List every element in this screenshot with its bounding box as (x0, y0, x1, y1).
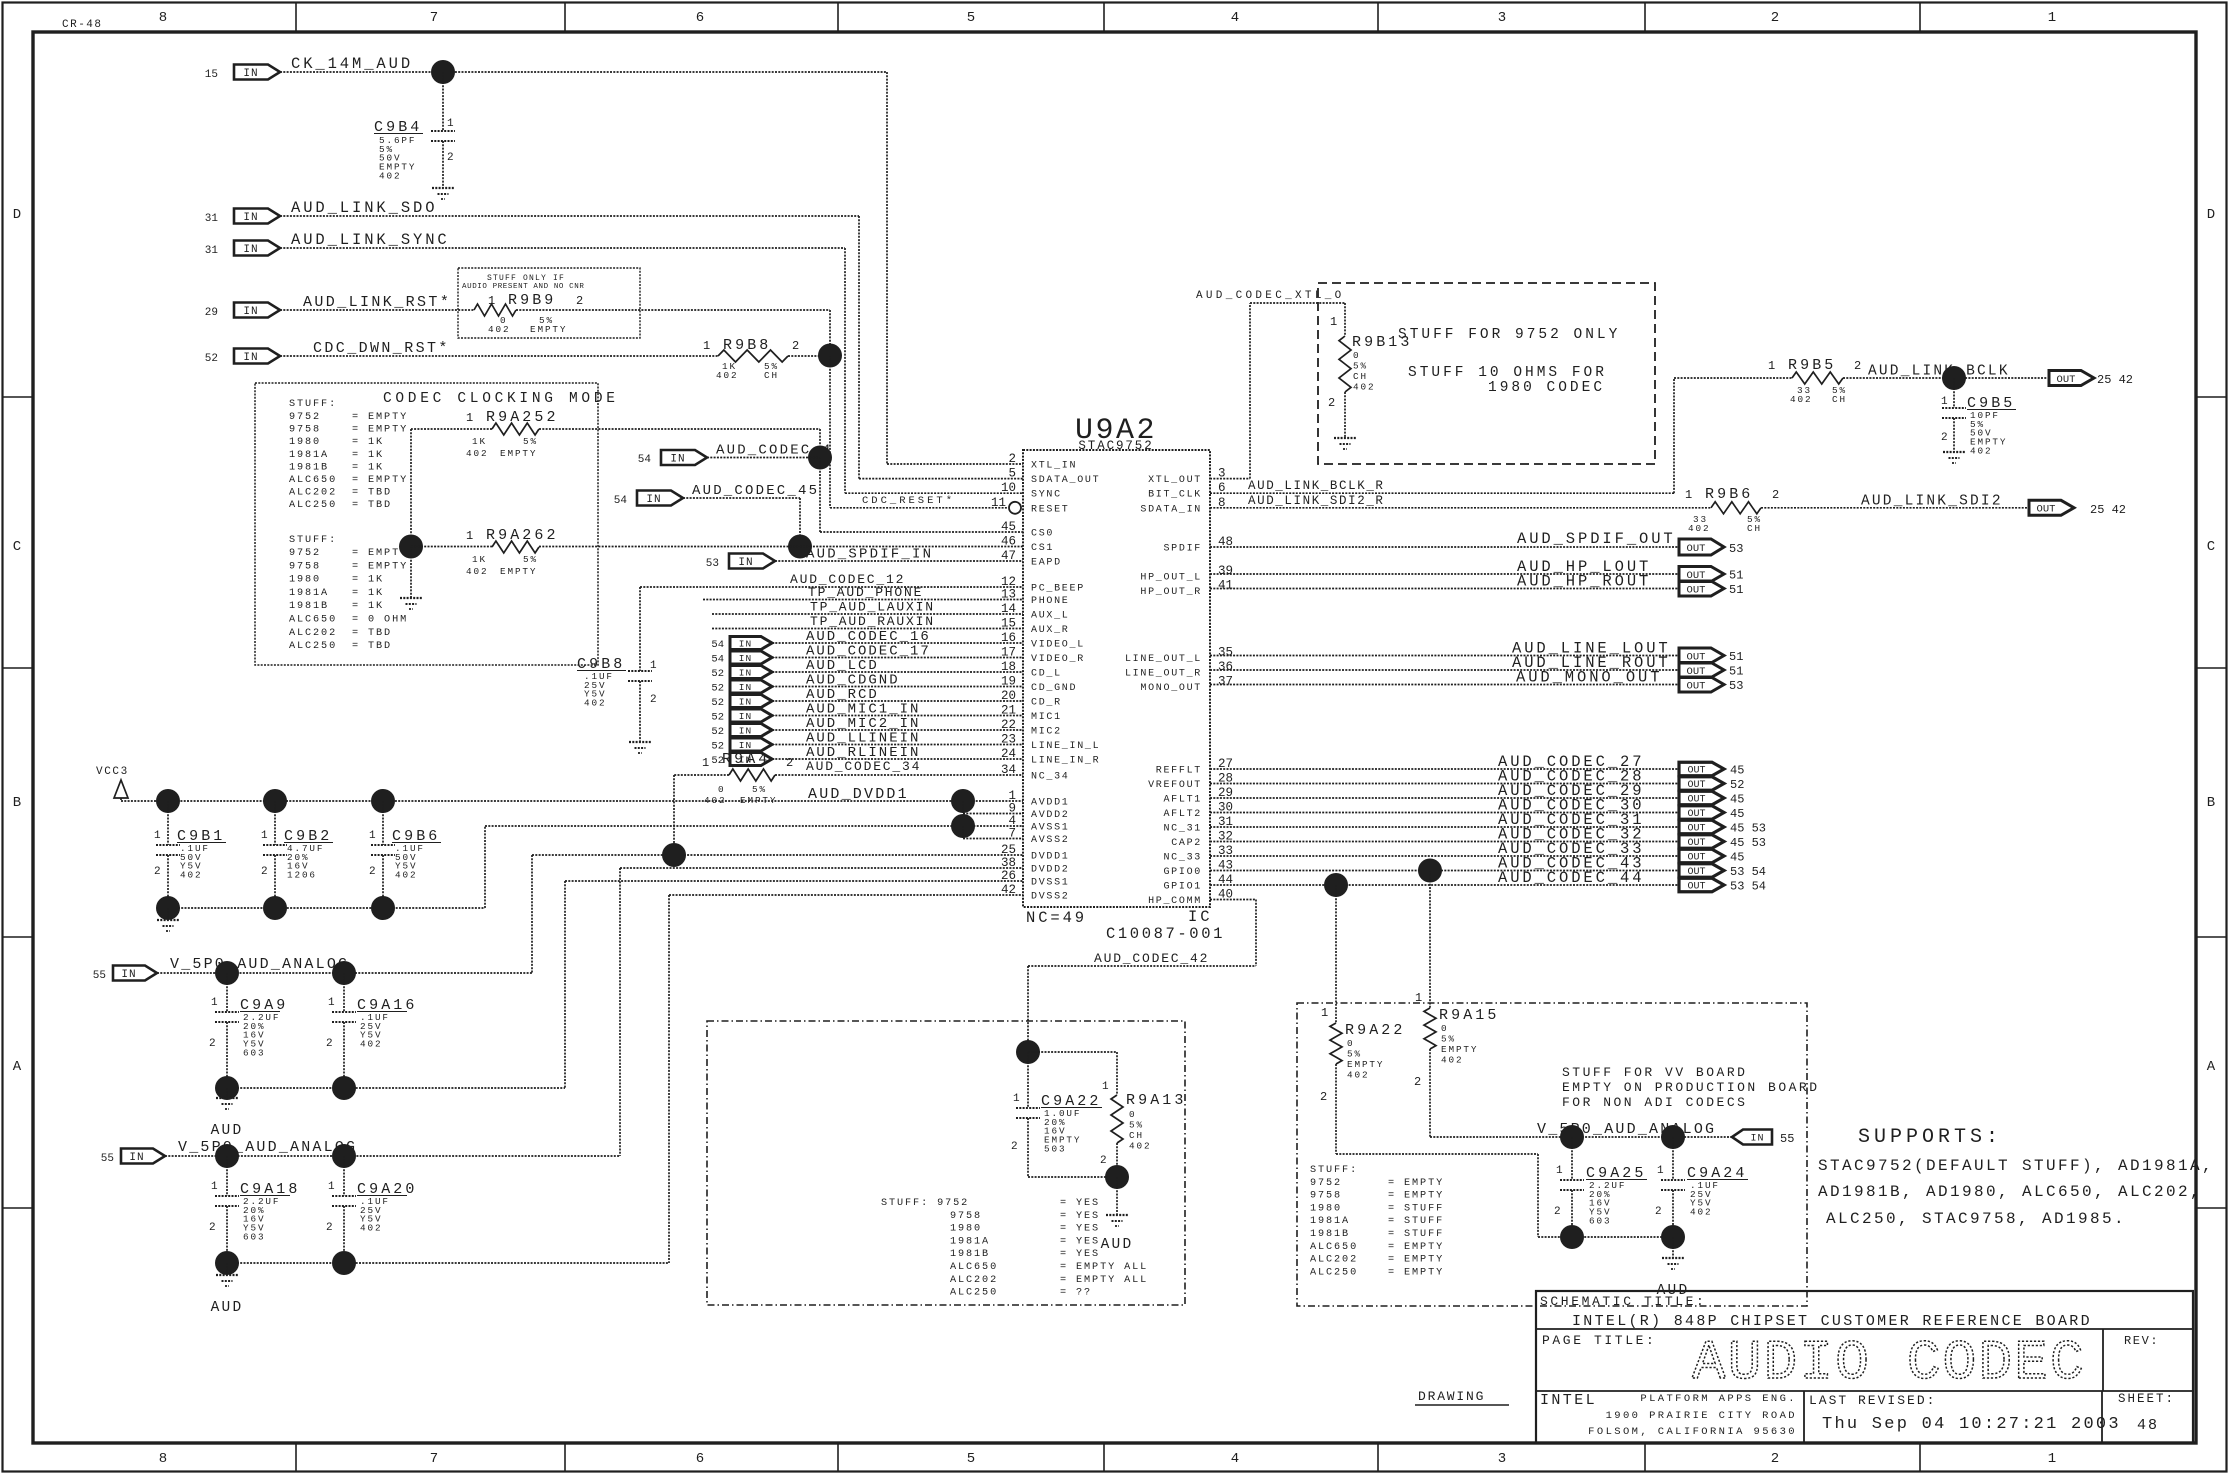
wire AUD_MIC1_IN (772, 715, 1023, 717)
svg-text:IN: IN (739, 725, 752, 736)
svg-text:= 1K: = 1K (352, 462, 384, 473)
svg-text:1981A: 1981A (1310, 1216, 1350, 1227)
svg-text:CR-48: CR-48 (62, 19, 103, 31)
svg-text:603: 603 (243, 1231, 265, 1242)
wire AUD_CODEC_33 (1210, 855, 1679, 857)
IC U9A2 RESET pin bubble (1009, 502, 1021, 514)
svg-text:45: 45 (1730, 851, 1744, 865)
svg-text:52: 52 (1730, 778, 1744, 792)
svg-text:1981B: 1981B (1310, 1229, 1350, 1240)
svg-text:402: 402 (360, 1039, 382, 1050)
svg-text:AUD_LINK_SDI2_R: AUD_LINK_SDI2_R (1248, 494, 1385, 508)
svg-text:R9B8: R9B8 (723, 337, 771, 354)
svg-text:HP_COMM: HP_COMM (1148, 896, 1202, 907)
svg-text:29: 29 (205, 307, 218, 319)
svg-text:TP_AUD_LAUXIN: TP_AUD_LAUXIN (810, 600, 935, 615)
svg-text:AUD_LINK_SDI2: AUD_LINK_SDI2 (1861, 494, 2003, 510)
wire AUD_LLINEIN (772, 744, 1023, 746)
svg-text:1K: 1K (472, 554, 487, 565)
note box STUFF ONLY IF AUDIO PRESENT AND NO CNR (458, 268, 640, 338)
capacitor C9B2 (274, 801, 276, 845)
wire junction to R9A13 (1028, 1051, 1117, 1053)
svg-text:19: 19 (1001, 675, 1016, 689)
svg-text:OUT: OUT (2057, 374, 2076, 386)
svg-text:A: A (13, 1059, 22, 1075)
svg-text:OUT: OUT (1687, 824, 1705, 835)
svg-text:GPIO1: GPIO1 (1163, 882, 1202, 893)
svg-text:LINE_OUT_L: LINE_OUT_L (1125, 654, 1202, 665)
svg-text:AUX_R: AUX_R (1031, 625, 1070, 636)
svg-text:IN: IN (739, 638, 752, 649)
svg-text:EMPTY: EMPTY (1347, 1059, 1384, 1070)
svg-text:1981B: 1981B (289, 601, 329, 612)
wire DVDD1 rail down to V_5P0_AUD_ANALOG (531, 855, 533, 973)
svg-text:2: 2 (1554, 1206, 1563, 1218)
svg-text:= 1K: = 1K (352, 588, 384, 599)
svg-text:V_5P0_AUD_ANALOG: V_5P0_AUD_ANALOG (170, 956, 349, 973)
wire CK_14M_AUD (280, 71, 887, 73)
wire R9B9 to reset node (516, 309, 830, 311)
ground AUD below C9A18 (216, 1274, 238, 1276)
svg-text:11: 11 (991, 496, 1006, 510)
port IN V_5P0_AUD_ANALOG sheet 55 (left pointing) (1732, 1130, 1772, 1145)
svg-text:2: 2 (369, 866, 378, 878)
wire AUD_SPDIF_IN to EAPD pin 47 (775, 560, 1023, 562)
svg-text:MONO_OUT: MONO_OUT (1140, 683, 1202, 694)
svg-text:2: 2 (1414, 1075, 1421, 1089)
svg-text:2: 2 (447, 152, 456, 164)
resistor R9A15 0 ohm EMPTY (1429, 871, 1431, 1009)
svg-text:5%: 5% (1353, 361, 1368, 372)
svg-text:2: 2 (209, 1038, 218, 1050)
svg-text:55: 55 (101, 1153, 114, 1165)
svg-text:15: 15 (205, 69, 218, 81)
svg-text:= YES: = YES (1060, 1224, 1100, 1235)
svg-text:AUD_CODEC_XTL_O: AUD_CODEC_XTL_O (1196, 290, 1345, 302)
node AVDD jumper (951, 789, 975, 813)
ground AUD in VV box (1662, 1257, 1684, 1259)
wire AUD_LINK_SYNC (280, 247, 845, 249)
svg-text:402: 402 (466, 448, 488, 459)
svg-text:6: 6 (696, 1451, 704, 1467)
wire R9A13 to ground rail (1116, 1143, 1118, 1177)
svg-text:ALC202: ALC202 (289, 488, 337, 499)
svg-text:R9A13: R9A13 (1126, 1092, 1187, 1109)
svg-text:55: 55 (1780, 1132, 1794, 1146)
svg-text:402: 402 (1970, 445, 1992, 456)
wire R9A252 left to ground rail (411, 428, 492, 430)
wire R9B6 to AUD_LINK_SDI2 out (1761, 507, 2029, 509)
svg-text:38: 38 (1001, 856, 1016, 870)
svg-text:2: 2 (1854, 359, 1861, 373)
svg-text:2: 2 (786, 756, 793, 770)
capacitor C9A18 2.2UF (226, 1156, 228, 1196)
svg-text:AUD_CODEC_42: AUD_CODEC_42 (1094, 951, 1209, 966)
svg-text:CD_R: CD_R (1031, 698, 1062, 709)
svg-text:LINE_IN_R: LINE_IN_R (1031, 756, 1100, 767)
svg-text:51: 51 (1729, 665, 1743, 679)
svg-text:= TBD: = TBD (352, 628, 392, 639)
svg-text:OUT: OUT (1687, 680, 1706, 692)
svg-text:402: 402 (379, 170, 401, 181)
svg-text:1980: 1980 (1310, 1203, 1342, 1214)
svg-text:OUT: OUT (2037, 504, 2056, 516)
svg-text:NC_34: NC_34 (1031, 772, 1070, 783)
note box stuff table C9A22 (707, 1021, 1185, 1305)
ground below C9B5 (1943, 451, 1965, 453)
wire AUD_CODEC_32 (1210, 841, 1679, 843)
svg-text:IN: IN (670, 453, 685, 465)
svg-text:1: 1 (466, 411, 473, 425)
svg-text:1981A: 1981A (289, 588, 329, 599)
svg-text:1: 1 (1321, 1006, 1328, 1020)
svg-text:53: 53 (1729, 542, 1743, 556)
svg-text:1981A: 1981A (950, 1236, 990, 1247)
node gnd-C9B1 (156, 896, 180, 920)
wire R9A4 right to NC_34 pin 34 (775, 774, 1023, 776)
svg-text:OUT: OUT (1687, 766, 1705, 777)
svg-text:2: 2 (1008, 452, 1016, 466)
wire R9B8 to reset node (788, 355, 830, 357)
capacitor C9B6 (382, 801, 384, 845)
svg-text:1900 PRAIRIE CITY ROAD: 1900 PRAIRIE CITY ROAD (1606, 1410, 1797, 1422)
wire AUD_CODEC_45 (683, 497, 800, 499)
svg-text:C: C (13, 539, 21, 555)
svg-text:51: 51 (1729, 583, 1743, 597)
svg-text:23: 23 (1001, 733, 1016, 747)
svg-text:= STUFF: = STUFF (1388, 1216, 1444, 1227)
svg-text:= STUFF: = STUFF (1388, 1203, 1444, 1214)
svg-text:402: 402 (1441, 1055, 1463, 1066)
wire R9B13 to ground (1344, 392, 1346, 438)
wire AUD_CDGND (772, 686, 1023, 688)
wire AUD_CODEC_27 (1210, 768, 1679, 770)
svg-text:R9A15: R9A15 (1439, 1007, 1500, 1024)
svg-text:PLATFORM APPS ENG.: PLATFORM APPS ENG. (1640, 1393, 1797, 1405)
node CDC_RESET* junction (818, 344, 842, 368)
svg-text:AVSS2: AVSS2 (1031, 835, 1070, 846)
svg-text:AVDD2: AVDD2 (1031, 810, 1070, 821)
svg-text:= YES: = YES (1060, 1249, 1100, 1260)
note box STUFF FOR VV BOARD (1297, 1003, 1807, 1306)
wire AVSS2 pin 7 jumper (962, 826, 964, 839)
wire AUD_CODEC_31 (1210, 826, 1679, 828)
svg-text:OUT: OUT (1687, 853, 1705, 864)
ground AUD below C9A9 (216, 1097, 238, 1099)
wire AUD_CODEC_12 to PC_BEEP pin 12 (640, 586, 1023, 588)
svg-text:EMPTY: EMPTY (530, 324, 567, 335)
node gnd-C9B6 (371, 896, 395, 920)
port OUT AUD_CODEC_43 sheets 53 54 (1679, 864, 1724, 878)
wire junction down to CS0 pin 45 (819, 458, 821, 533)
svg-text:TP_AUD_RAUXIN: TP_AUD_RAUXIN (810, 614, 935, 629)
svg-text:REFFLT: REFFLT (1156, 766, 1202, 777)
svg-text:45: 45 (1730, 807, 1744, 821)
wire AUD_LINK_RST* to R9B9 (280, 309, 474, 311)
svg-text:LINE_IN_L: LINE_IN_L (1031, 741, 1100, 752)
svg-text:= ??: = ?? (1060, 1288, 1092, 1299)
svg-text:= 1K: = 1K (352, 601, 384, 612)
svg-text:AUD_LINK_BCLK_R: AUD_LINK_BCLK_R (1248, 479, 1385, 493)
wire R9A252 right to CS0 node (539, 428, 820, 430)
svg-text:1: 1 (211, 997, 220, 1009)
svg-text:1: 1 (703, 339, 710, 353)
svg-text:1: 1 (261, 830, 270, 842)
svg-text:1981A: 1981A (289, 450, 329, 461)
svg-text:GPIO0: GPIO0 (1163, 867, 1202, 878)
svg-text:CK_14M_AUD: CK_14M_AUD (291, 55, 413, 73)
svg-text:402: 402 (466, 566, 488, 577)
svg-text:51: 51 (1729, 569, 1743, 583)
node gnd C9A20 (332, 1251, 356, 1275)
svg-text:REV:: REV: (2124, 1334, 2159, 1348)
svg-text:2: 2 (209, 1222, 218, 1234)
svg-text:1: 1 (1330, 315, 1337, 329)
svg-text:31: 31 (205, 213, 219, 225)
svg-text:FOR NON ADI CODECS: FOR NON ADI CODECS (1562, 1095, 1747, 1110)
wire DVDD2 pin 38 (620, 867, 1023, 869)
svg-text:= EMPTY: = EMPTY (1388, 1178, 1444, 1189)
node CS0 junction (808, 446, 832, 470)
svg-text:OUT: OUT (1687, 838, 1705, 849)
svg-text:= EMPTY: = EMPTY (352, 475, 408, 486)
wire AUD_CODEC_29 (1210, 797, 1679, 799)
node VCC3-C9B2 (263, 789, 287, 813)
port OUT AUD_LINE_LOUT sheet 51 (1679, 648, 1724, 663)
svg-text:EMPTY: EMPTY (1441, 1044, 1478, 1055)
port OUT AUD_CODEC_29 sheets 45 (1679, 791, 1724, 805)
svg-text:SUPPORTS:: SUPPORTS: (1858, 1126, 2002, 1149)
svg-text:5%: 5% (1441, 1034, 1456, 1045)
svg-text:MIC1: MIC1 (1031, 712, 1062, 723)
svg-text:R9B6: R9B6 (1705, 486, 1753, 503)
svg-text:54: 54 (614, 495, 628, 507)
svg-text:1: 1 (2048, 1451, 2056, 1467)
svg-text:2: 2 (1328, 396, 1335, 410)
svg-text:402: 402 (180, 870, 202, 881)
svg-text:402: 402 (1353, 382, 1375, 393)
svg-text:603: 603 (243, 1047, 265, 1058)
svg-text:4: 4 (1231, 10, 1239, 26)
wire AUD_CODEC_16 (772, 642, 1023, 644)
ground below R9B13 (1334, 437, 1356, 439)
svg-text:5%: 5% (1129, 1120, 1144, 1131)
svg-text:AFLT2: AFLT2 (1163, 809, 1202, 820)
svg-text:= TBD: = TBD (352, 488, 392, 499)
svg-text:SPDIF: SPDIF (1163, 544, 1202, 555)
svg-text:16: 16 (1001, 631, 1016, 645)
svg-text:2: 2 (1772, 488, 1779, 502)
wire VCC3 rail to AVDD1 pin 1 (121, 800, 1023, 802)
port OUT AUD_CODEC_33 sheets 45 (1679, 849, 1724, 863)
node gnd C9A16 (332, 1076, 356, 1100)
svg-text:1: 1 (328, 1181, 337, 1193)
wire DVSS1 pin 26 (565, 880, 1023, 882)
svg-text:HP_OUT_L: HP_OUT_L (1140, 573, 1202, 584)
svg-text:IC: IC (1188, 908, 1212, 926)
svg-text:= EMPTY ALL: = EMPTY ALL (1060, 1275, 1148, 1286)
svg-text:9758: 9758 (289, 425, 321, 436)
svg-text:= 1K: = 1K (352, 437, 384, 448)
node V1-C9A9 (215, 961, 239, 985)
svg-text:31: 31 (205, 245, 219, 257)
svg-text:8: 8 (159, 10, 167, 26)
svg-text:HP_OUT_R: HP_OUT_R (1140, 587, 1202, 598)
svg-text:25 42: 25 42 (2090, 503, 2126, 517)
svg-text:CH: CH (1129, 1130, 1144, 1141)
wire C9B8 to ground (639, 681, 641, 742)
svg-text:AUD_HP_ROUT: AUD_HP_ROUT (1517, 573, 1651, 591)
svg-text:D: D (2207, 207, 2215, 223)
svg-text:2: 2 (1100, 1155, 1109, 1167)
svg-text:41: 41 (1218, 579, 1233, 593)
svg-text:Thu Sep 04 10:27:21 2003: Thu Sep 04 10:27:21 2003 (1822, 1415, 2121, 1434)
svg-text:C10087-001: C10087-001 (1106, 925, 1225, 943)
svg-text:1: 1 (211, 1181, 220, 1193)
IC U9A2 STAC9752 (1023, 450, 1210, 907)
port OUT AUD_CODEC_28 sheets 52 (1679, 777, 1724, 791)
svg-text:= EMPTY: = EMPTY (1388, 1191, 1444, 1202)
svg-text:10: 10 (1001, 481, 1016, 495)
capacitor C9A9 2.2UF (226, 973, 228, 1012)
svg-text:ALC250: ALC250 (950, 1288, 998, 1299)
capacitor C9A24 .1UF (1672, 1137, 1674, 1180)
svg-text:IN: IN (739, 667, 752, 678)
svg-text:IN: IN (739, 740, 752, 751)
node gnd C9A24 (1661, 1225, 1685, 1249)
svg-text:2: 2 (261, 866, 270, 878)
svg-text:DRAWING: DRAWING (1418, 1389, 1485, 1404)
svg-text:402: 402 (1690, 1207, 1712, 1218)
wire AUD_MONO_OUT (1210, 684, 1679, 686)
wire DVSS2 pin 42 (669, 894, 1023, 896)
svg-text:402: 402 (716, 370, 738, 381)
ground in clocking box (400, 597, 422, 599)
svg-text:SDATA_OUT: SDATA_OUT (1031, 475, 1100, 486)
svg-text:36: 36 (1218, 660, 1233, 674)
svg-text:CH: CH (1353, 371, 1368, 382)
svg-text:AUD_SPDIF_IN: AUD_SPDIF_IN (806, 547, 933, 563)
svg-text:52: 52 (711, 668, 724, 680)
svg-text:1: 1 (1102, 1081, 1111, 1093)
wire V2 ground rail (227, 1262, 669, 1264)
ground below C9B4 (432, 187, 454, 189)
svg-text:1: 1 (1768, 359, 1775, 373)
svg-text:45 53: 45 53 (1730, 822, 1766, 836)
svg-text:IN: IN (243, 352, 258, 364)
title block (1536, 1291, 2193, 1443)
svg-text:22: 22 (1001, 718, 1016, 732)
port OUT AUD_LINE_ROUT sheet 51 (1679, 663, 1724, 678)
capacitor C9A20 .1UF (343, 1156, 345, 1196)
svg-text:1: 1 (369, 830, 378, 842)
svg-text:B: B (2207, 795, 2215, 811)
svg-text:= EMPTY: = EMPTY (1388, 1242, 1444, 1253)
wire C9A18 to AUD ground (226, 1263, 228, 1275)
svg-text:PAGE TITLE:: PAGE TITLE: (1542, 1333, 1656, 1348)
svg-text:2: 2 (1320, 1090, 1327, 1104)
svg-text:DVSS2: DVSS2 (1031, 892, 1070, 903)
svg-text:TP_AUD_PHONE: TP_AUD_PHONE (808, 585, 923, 600)
svg-text:CD_L: CD_L (1031, 669, 1062, 680)
note box STUFF FOR 9752 ONLY (1318, 283, 1655, 464)
node gnd C9A9 (215, 1076, 239, 1100)
wire C9A9 to AUD ground (226, 1088, 228, 1098)
svg-text:51: 51 (1729, 650, 1743, 664)
svg-text:AUD_CODEC_34: AUD_CODEC_34 (806, 759, 921, 774)
svg-text:AFLT1: AFLT1 (1163, 795, 1202, 806)
svg-text:EMPTY ON PRODUCTION BOARD: EMPTY ON PRODUCTION BOARD (1562, 1080, 1820, 1095)
capacitor C9B1 (167, 801, 169, 845)
svg-text:AUD: AUD (1101, 1237, 1134, 1253)
svg-text:= 1K: = 1K (352, 575, 384, 586)
wire V_5P0_AUD_ANALOG rail 2 (165, 1155, 620, 1157)
wire AUD_LINK_SDI2_R from SDATA_IN pin 8 (1210, 507, 1711, 509)
svg-text:47: 47 (1001, 549, 1016, 563)
svg-text:4: 4 (1231, 1451, 1239, 1467)
svg-text:35: 35 (1218, 646, 1233, 660)
svg-text:402: 402 (584, 698, 606, 709)
svg-text:402: 402 (395, 870, 417, 881)
svg-text:OUT: OUT (1687, 809, 1705, 820)
svg-text:CODEC CLOCKING MODE: CODEC CLOCKING MODE (383, 391, 619, 407)
node V2-C9A20 (332, 1144, 356, 1168)
svg-text:LINE_OUT_R: LINE_OUT_R (1125, 669, 1202, 680)
svg-text:46: 46 (1001, 535, 1016, 549)
wire AUD_CODEC_17 (772, 657, 1023, 659)
wire AUD_LINE_ROUT (1210, 669, 1679, 671)
wire junction to AUD ground (1116, 1177, 1118, 1215)
wire R9B5 to AUD_LINK_BCLK out (1843, 377, 2049, 379)
svg-text:AUD_LINK_BCLK: AUD_LINK_BCLK (1868, 364, 2010, 380)
svg-text:DVDD1: DVDD1 (1031, 852, 1070, 863)
svg-text:53: 53 (706, 558, 719, 570)
svg-text:VREFOUT: VREFOUT (1148, 780, 1202, 791)
svg-text:IN: IN (739, 711, 752, 722)
svg-text:CS1: CS1 (1031, 543, 1054, 554)
svg-text:5%: 5% (523, 436, 538, 447)
svg-text:402: 402 (1347, 1070, 1369, 1081)
wire R9A15 down to V_5P0_AUD_ANALOG rail (1429, 1049, 1431, 1137)
node DVDD1-R9A4 junction (662, 843, 686, 867)
node gnd-C9B2 (263, 896, 287, 920)
wire C9B1/C9B2/C9B6 ground rail (168, 907, 485, 909)
node CK_14M_AUD junction (431, 60, 455, 84)
svg-text:3: 3 (1498, 1451, 1506, 1467)
svg-text:AUD_SPDIF_OUT: AUD_SPDIF_OUT (1517, 530, 1676, 548)
svg-text:2: 2 (1771, 1451, 1779, 1467)
svg-text:IN: IN (739, 682, 752, 693)
wire TP_AUD_LAUXIN stub to AUX_L pin 14 (712, 613, 1023, 615)
svg-text:ALC250: ALC250 (289, 641, 337, 652)
svg-text:42: 42 (1001, 883, 1016, 897)
svg-text:= TBD: = TBD (352, 500, 392, 511)
wire C9A22 to ground rail (1027, 1118, 1029, 1177)
wire AUD_CODEC_46 to junction (707, 457, 820, 459)
node AUD_CODEC_43 junction (1418, 859, 1442, 883)
node gnd C9A25 (1560, 1225, 1584, 1249)
svg-text:CDC_RESET*: CDC_RESET* (862, 495, 955, 507)
svg-text:20: 20 (1001, 689, 1016, 703)
svg-text:AUD_LINK_RST*: AUD_LINK_RST* (303, 294, 451, 311)
svg-text:7: 7 (430, 10, 438, 26)
svg-text:EAPD: EAPD (1031, 558, 1062, 569)
svg-text:45: 45 (1001, 520, 1016, 534)
svg-text:IN: IN (243, 212, 258, 224)
svg-text:STUFF:: STUFF: (289, 535, 337, 546)
svg-text:STUFF FOR 9752 ONLY: STUFF FOR 9752 ONLY (1398, 327, 1620, 343)
svg-text:CAP2: CAP2 (1171, 838, 1202, 849)
